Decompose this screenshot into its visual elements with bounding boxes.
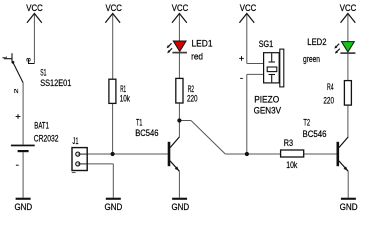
svg-text:GND: GND [340,201,358,212]
svg-text:220: 220 [187,92,198,103]
svg-text:red: red [191,51,203,62]
svg-text:10k: 10k [120,93,131,104]
svg-text:GEN3V: GEN3V [254,104,282,115]
svg-text:S1: S1 [40,67,46,78]
svg-text:1: 1 [3,56,9,59]
svg-text:BAT1: BAT1 [34,120,49,131]
svg-text:VCC: VCC [105,2,122,13]
svg-text:green: green [303,53,320,64]
svg-text:2: 2 [14,88,20,93]
svg-text:VCC: VCC [340,2,357,13]
svg-text:T2: T2 [303,116,310,127]
svg-text:SS12E01: SS12E01 [40,77,71,88]
svg-text:BC546: BC546 [303,128,327,139]
svg-text:SG1: SG1 [259,38,273,49]
svg-text:PIEZO: PIEZO [254,94,279,105]
svg-text:CR2032: CR2032 [34,133,59,144]
svg-text:J1: J1 [73,135,79,146]
svg-text:BC546: BC546 [135,127,158,138]
svg-text:3: 3 [26,57,32,61]
svg-text:10k: 10k [286,159,297,170]
svg-text:GND: GND [14,201,32,212]
svg-text:VCC: VCC [26,2,43,13]
svg-text:GND: GND [171,201,189,212]
svg-text:R4: R4 [327,81,334,92]
svg-text:GND: GND [105,201,123,212]
svg-text:220: 220 [323,94,334,105]
svg-text:R3: R3 [284,137,293,148]
svg-text:VCC: VCC [172,2,189,13]
svg-text:LED1: LED1 [192,38,213,49]
svg-text:LED2: LED2 [307,36,326,47]
svg-text:VCC: VCC [240,2,257,13]
